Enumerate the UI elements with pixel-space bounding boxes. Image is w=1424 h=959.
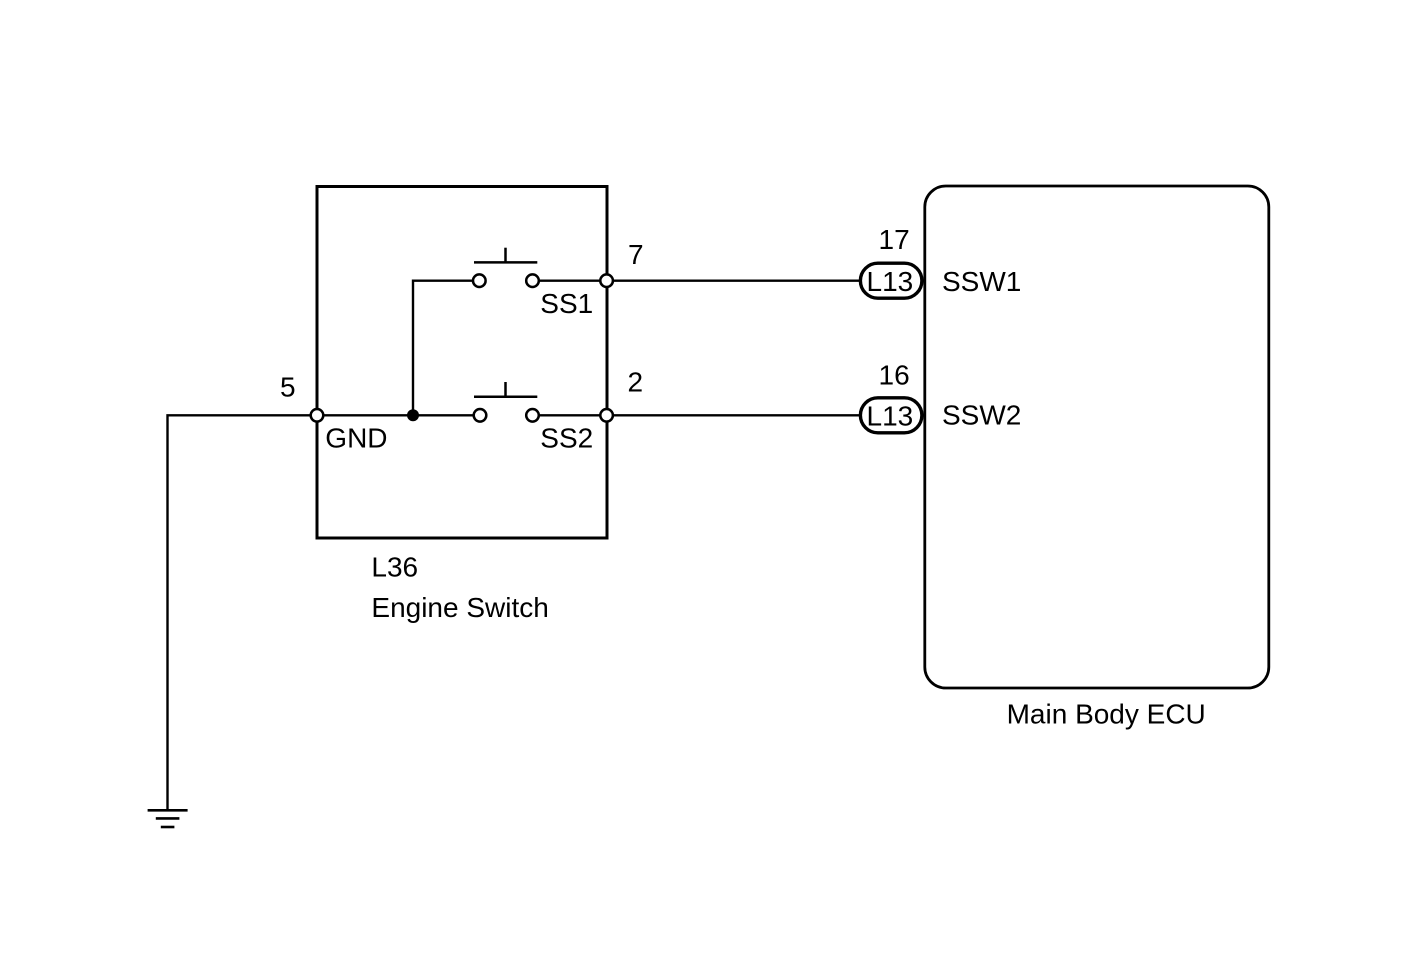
wire: SS2 to pin 2 (539, 414, 607, 416)
connector L13 pin 17 (860, 263, 922, 298)
junction dot (407, 409, 419, 421)
svg-text:Engine Switch: Engine Switch (371, 592, 548, 623)
svg-text:2: 2 (628, 367, 644, 398)
wire: SS1 to pin 7 (539, 280, 607, 282)
ground (148, 810, 188, 827)
node: pin 5 terminal (311, 409, 324, 422)
node: pin 7 terminal (600, 274, 613, 287)
svg-text:L36: L36 (371, 551, 418, 582)
Main Body ECU box (925, 186, 1269, 688)
svg-text:17: 17 (879, 224, 910, 255)
svg-text:16: 16 (879, 360, 910, 391)
svg-text:GND: GND (325, 423, 387, 454)
svg-text:SS2: SS2 (540, 423, 593, 454)
connector L13 pin 16 (860, 398, 922, 433)
wire: ground drop from pin 5 (168, 415, 318, 810)
engine switch box L36 (317, 187, 607, 539)
svg-text:SS1: SS1 (540, 288, 593, 319)
svg-text:L13: L13 (867, 400, 914, 431)
svg-text:5: 5 (280, 371, 296, 402)
wire: GND pin to SS2 left contact (317, 414, 473, 416)
node: pin 2 terminal (600, 409, 613, 422)
svg-text:SSW1: SSW1 (942, 266, 1021, 297)
wire: pin 2 to connector L13 (613, 414, 860, 416)
wire: junction up to SS1 left contact (413, 281, 472, 416)
switch SS2 (474, 382, 539, 422)
switch SS1 (473, 248, 539, 287)
svg-text:L13: L13 (867, 266, 914, 297)
wire: pin 7 to connector L13 (613, 280, 860, 282)
svg-text:SSW2: SSW2 (942, 400, 1021, 431)
svg-text:Main Body ECU: Main Body ECU (1007, 698, 1206, 729)
svg-text:7: 7 (628, 239, 644, 270)
